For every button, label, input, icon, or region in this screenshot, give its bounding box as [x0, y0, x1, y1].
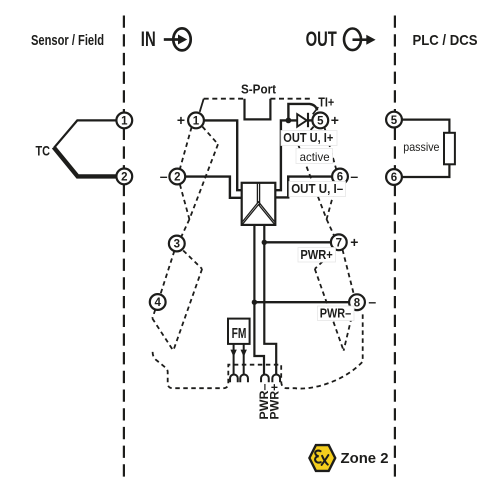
IN port icon (arrow into circle) — [164, 28, 191, 50]
wire: isolator output OUT U,I- to terminal 6 — [275, 177, 332, 198]
wire: terminal 1 to isolator input — [204, 120, 242, 190]
device terminal 2 — [169, 169, 185, 185]
tick across TI+ hook — [313, 107, 319, 114]
wire: PWR- to terminal 8 — [254, 301, 349, 303]
zone separator line left (Sensor/Field | IN) — [123, 16, 125, 482]
svg-text:TI+: TI+ — [318, 96, 334, 110]
svg-text:OUT U, I+: OUT U, I+ — [283, 130, 333, 145]
svg-text:OUT: OUT — [306, 27, 337, 51]
svg-text:+: + — [177, 112, 185, 128]
device terminal 6 — [332, 169, 348, 185]
isolation amplifier block U1 — [242, 183, 276, 225]
connector lattice: T4 to corner — [152, 310, 155, 319]
connector lattice right: T7 to left vertex — [315, 251, 335, 269]
thermocouple TC lower leg (thick wire) — [54, 147, 117, 176]
socket bump PWR+ — [272, 374, 280, 382]
svg-text:8: 8 — [354, 297, 361, 309]
svg-text:OUT U, I–: OUT U, I– — [291, 181, 343, 196]
socket bump PWR- — [261, 374, 269, 382]
connector lattice right: T7 to T8 dashed — [343, 250, 355, 295]
PLC load resistor — [444, 133, 455, 165]
label PWR+ — [298, 247, 336, 262]
connector lattice right: V node to T7 — [327, 219, 335, 236]
device terminal 5 — [312, 113, 328, 129]
PLC terminal 6 — [386, 169, 402, 185]
svg-text:2: 2 — [121, 172, 127, 184]
connector lattice right: vertex down to V node — [298, 144, 327, 219]
svg-text:7: 7 — [336, 238, 342, 250]
wire: isolator output OUT U,I+ up to diode node — [275, 120, 297, 190]
FM output arrow right — [241, 344, 247, 374]
svg-text:PWR+: PWR+ — [300, 247, 333, 262]
svg-text:passive: passive — [403, 140, 439, 154]
svg-text:5: 5 — [391, 115, 398, 127]
device outline: dashed top edge right part — [270, 98, 310, 100]
svg-text:+: + — [350, 234, 358, 250]
S-Port connector notch — [245, 99, 271, 120]
PLC terminal 6 wiring — [402, 164, 449, 177]
connector lattice: vertex down to lower V node — [173, 269, 202, 351]
connector lattice: T3 to right vertex — [183, 251, 202, 269]
diode D1 (to terminal 5) — [297, 113, 308, 127]
connector lattice right: T5 to T6 dashed — [324, 127, 336, 169]
svg-text:+: + — [331, 112, 339, 128]
wire: TI+ branch with hook onto terminal 5 — [288, 104, 317, 121]
device terminal 8 — [349, 294, 365, 310]
svg-text:6: 6 — [391, 172, 397, 184]
connector lattice right: vertex down to lower V node — [315, 269, 344, 351]
PLC terminal 5 — [386, 112, 402, 128]
junction node at diode / TI+ — [286, 118, 292, 124]
FM box — [228, 319, 250, 344]
PLC terminal 5 wiring — [402, 120, 449, 133]
svg-text:Sensor / Field: Sensor / Field — [31, 32, 104, 49]
connector lattice right: T6 down to V node — [327, 184, 337, 219]
svg-text:1: 1 — [121, 116, 128, 128]
svg-text:–: – — [368, 294, 376, 310]
svg-text:2: 2 — [174, 172, 180, 184]
svg-text:FM: FM — [232, 325, 247, 342]
wire: power rail PWR- (left vertical) — [254, 224, 264, 374]
svg-text:TC: TC — [36, 142, 51, 158]
label OUT U, I- — [289, 181, 346, 196]
device outline: bottom dashed boundary with rounded corners — [153, 311, 363, 388]
device terminal 3 — [169, 236, 185, 252]
svg-text:–: – — [160, 168, 168, 184]
svg-text:PWR–: PWR– — [320, 305, 351, 320]
FM output arrow left — [230, 344, 236, 374]
connector lattice right: T8 down to lower V node — [344, 310, 354, 351]
svg-text:S-Port: S-Port — [241, 81, 277, 96]
svg-text:PWR+: PWR+ — [268, 384, 282, 420]
svg-text:Zone 2: Zone 2 — [341, 450, 389, 467]
socket bump FM right — [240, 374, 248, 382]
connector lattice: right vertex down to V node — [189, 144, 218, 219]
svg-text:PLC / DCS: PLC / DCS — [413, 32, 478, 49]
mask under vertical power labels — [258, 384, 280, 422]
svg-text:–: – — [350, 168, 358, 184]
socket bump FM left — [230, 374, 238, 382]
field terminal 1 (sensor side) — [116, 113, 132, 129]
wire: terminal 2 to isolator input — [185, 177, 241, 198]
svg-text:1: 1 — [193, 116, 200, 128]
device outline: dashed top edge left part — [204, 98, 245, 100]
label active — [296, 149, 333, 165]
svg-text:IN: IN — [141, 27, 156, 51]
zone separator line right (OUT | PLC/DCS) — [394, 16, 396, 482]
junction node PWR- — [252, 300, 257, 305]
svg-text:4: 4 — [154, 297, 161, 309]
junction node PWR+ — [262, 240, 267, 245]
wire: PWR+ to terminal 7 — [264, 241, 331, 243]
label PWR- — [318, 305, 355, 320]
connector lattice: T2 down to V node — [180, 184, 190, 219]
connector lattice: corner down to lower V node — [152, 318, 173, 350]
connector lattice: V node to T3 — [182, 219, 190, 236]
label OUT U, I+ — [281, 130, 337, 146]
Ex hexagon symbol — [309, 445, 335, 471]
OUT port icon (arrow out of circle) — [344, 29, 376, 51]
wire: diode to terminal 5 — [309, 119, 313, 121]
field terminal 2 (sensor side) — [116, 169, 132, 185]
connector lattice: T1 to right vertex — [202, 127, 218, 145]
device terminal 4 — [150, 294, 166, 310]
svg-text:3: 3 — [174, 239, 180, 251]
device terminal 7 — [331, 234, 347, 250]
svg-text:active: active — [300, 150, 330, 164]
connector lattice: T3 to T4 dashed — [160, 251, 174, 295]
wire: power rail PWR+ (right vertical) — [264, 224, 276, 374]
thermocouple TC upper leg (thin wire) — [54, 120, 116, 147]
device outline: top-left corner diagonal to terminal 1 — [200, 99, 204, 112]
connector lattice: T1 to T2 dashed — [180, 127, 192, 169]
svg-text:5: 5 — [317, 116, 324, 128]
connector lattice right: T5 to left vertex — [298, 127, 314, 145]
device terminal 1 — [188, 113, 204, 129]
